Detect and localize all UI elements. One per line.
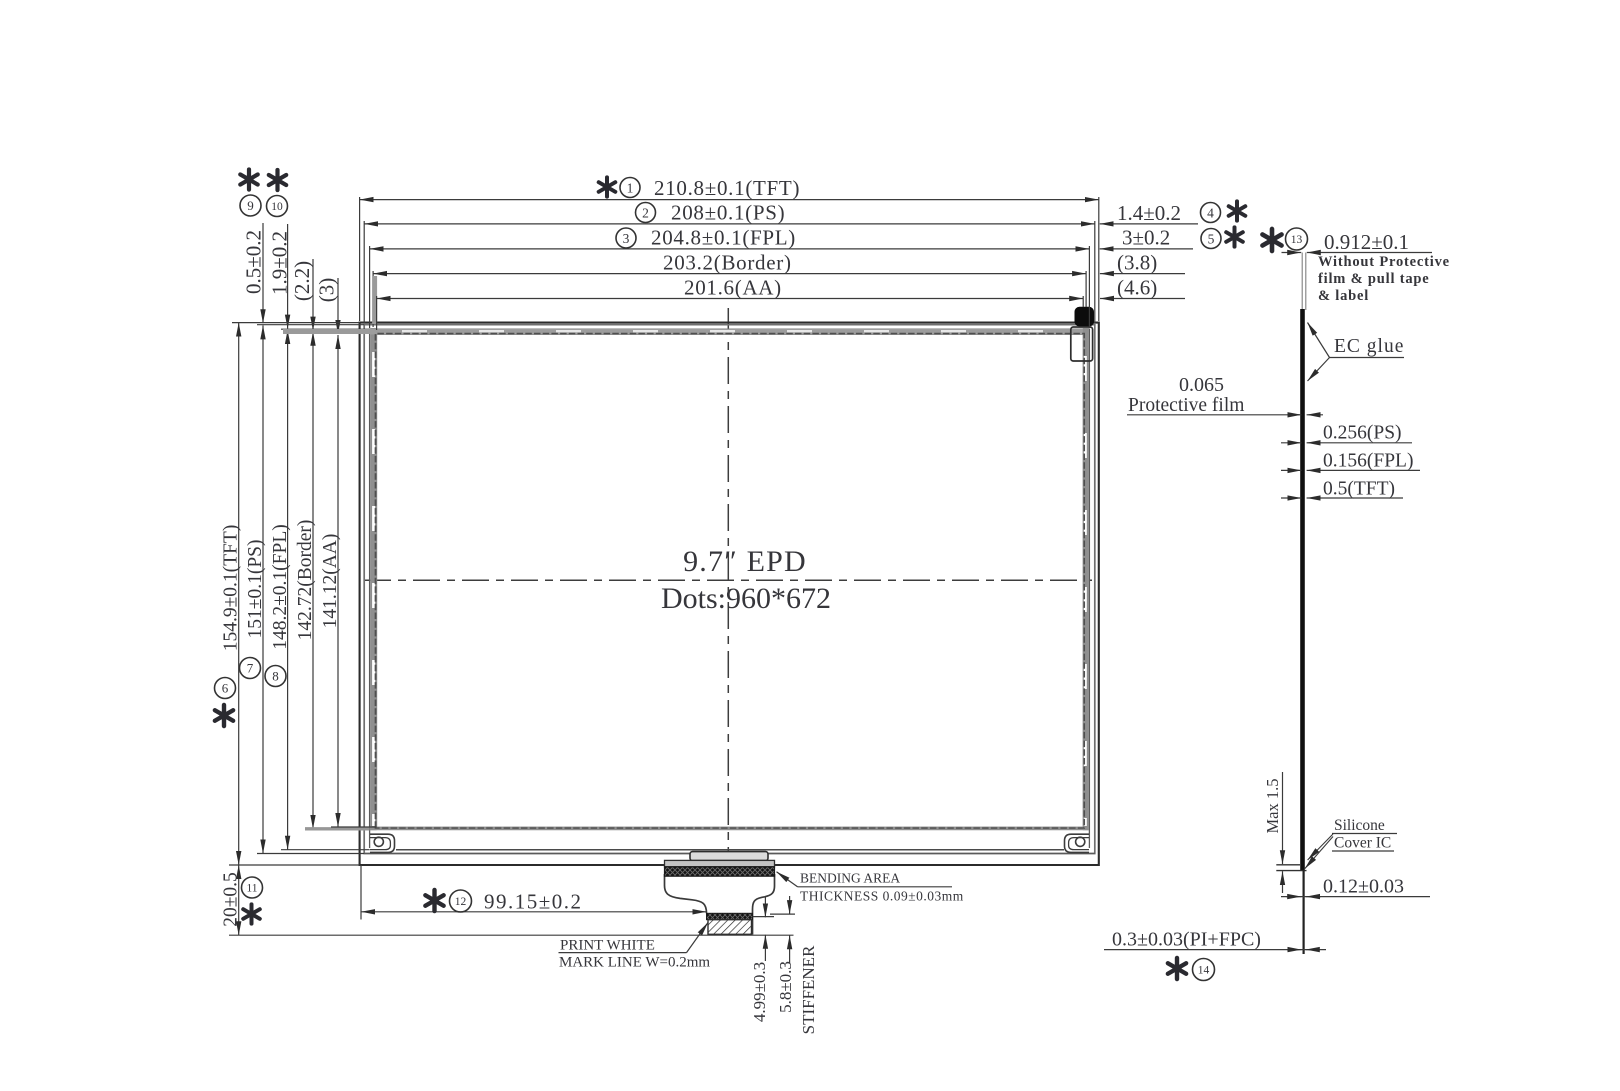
svg-text:(2.2): (2.2) xyxy=(290,261,314,301)
Max 1.5 lower arrow xyxy=(1282,871,1284,893)
asterisk for dim 6 xyxy=(215,705,233,726)
asterisk for dim 4 xyxy=(1229,201,1246,220)
underline PRINT WHITE xyxy=(559,952,687,954)
svg-text:99.15±0.2: 99.15±0.2 xyxy=(484,890,583,914)
dim 0.912 left arrow xyxy=(1282,252,1302,254)
0.256 arrows xyxy=(1281,442,1301,444)
svg-text:Without Protective: Without Protective xyxy=(1318,254,1450,270)
circled 2 xyxy=(636,203,656,223)
extension TFT top-left corner xyxy=(359,197,361,321)
FPC bending area dark crosshatch band xyxy=(665,867,775,876)
extension FPL bottom edge to left xyxy=(281,849,370,851)
svg-text:PRINT WHITE: PRINT WHITE xyxy=(560,938,655,954)
EC glue leader up xyxy=(1308,323,1330,358)
svg-text:(3.8): (3.8) xyxy=(1117,251,1157,275)
horizontal dashed centerline xyxy=(364,579,1094,581)
circled 3 xyxy=(616,228,636,248)
svg-text:203.2(Border): 203.2(Border) xyxy=(663,251,792,275)
circled 4 xyxy=(1201,203,1221,223)
extension PS bottom edge to left xyxy=(257,853,364,855)
circled 5 xyxy=(1201,229,1221,249)
svg-text:0.5(TFT): 0.5(TFT) xyxy=(1323,479,1395,500)
svg-text:151±0.1(PS): 151±0.1(PS) xyxy=(245,539,266,638)
svg-text:1.9±0.2: 1.9±0.2 xyxy=(268,231,292,295)
circled 9 xyxy=(240,195,261,216)
svg-text:1: 1 xyxy=(627,180,634,195)
protective film arrows xyxy=(1288,414,1301,416)
neck print-white dark crosshatch band xyxy=(707,913,753,919)
svg-text:148.2±0.1(FPL): 148.2±0.1(FPL) xyxy=(270,524,291,650)
Max 1.5 upper arrow xyxy=(1282,772,1284,864)
asterisk for dim 1 xyxy=(599,177,616,196)
svg-text:BENDING AREA: BENDING AREA xyxy=(800,871,900,886)
border band white dash texture xyxy=(372,352,375,826)
circled 7 xyxy=(240,658,261,679)
FPC connector tab (top) xyxy=(690,852,768,861)
extension Border top-left xyxy=(372,271,374,327)
svg-text:MARK LINE W=0.2mm: MARK LINE W=0.2mm xyxy=(559,955,710,971)
extension TFT bottom edge to left xyxy=(229,864,360,866)
extension neck top right short xyxy=(753,916,775,918)
svg-text:(3): (3) xyxy=(315,278,339,303)
svg-text:3±0.2: 3±0.2 xyxy=(1122,226,1170,250)
dim line 3: 204.8 FPL width xyxy=(370,248,1090,250)
left gap dim 1.9 upper leader xyxy=(287,224,289,329)
asterisk for dim 13 xyxy=(1262,229,1281,251)
left dim vertical: 148.2 FPL height xyxy=(287,330,289,850)
svg-text:142.72(Border): 142.72(Border) xyxy=(295,520,316,641)
svg-text:9: 9 xyxy=(247,198,254,213)
FPC body outline with S-curve neck xyxy=(665,874,775,935)
extension FPL top-right xyxy=(1088,246,1090,328)
svg-text:0.12±0.03: 0.12±0.03 xyxy=(1323,876,1404,898)
svg-text:20±0.5: 20±0.5 xyxy=(221,872,242,927)
svg-text:Protective film: Protective film xyxy=(1128,395,1244,416)
0.5 underline xyxy=(1318,497,1404,499)
extension TFT top-right corner xyxy=(1098,197,1100,321)
extension PS top-right xyxy=(1094,221,1096,323)
svg-text:7: 7 xyxy=(247,661,254,676)
svg-text:(4.6): (4.6) xyxy=(1117,276,1157,300)
dim 0.912 right arrow and underline xyxy=(1307,252,1432,254)
svg-text:0.912±0.1: 0.912±0.1 xyxy=(1324,230,1409,254)
svg-text:Dots:960*672: Dots:960*672 xyxy=(661,582,831,615)
left dim vertical: 141.12 AA height xyxy=(337,335,339,827)
svg-text:0.5±0.2: 0.5±0.2 xyxy=(242,230,266,294)
protective film underline xyxy=(1127,414,1299,416)
svg-text:210.8±0.1(TFT): 210.8±0.1(TFT) xyxy=(654,176,800,200)
bottom-left ear hole circle xyxy=(374,837,383,846)
circled 8 xyxy=(265,666,286,687)
left dim vertical: 151 PS height xyxy=(262,325,264,853)
svg-text:0.256(PS): 0.256(PS) xyxy=(1323,423,1402,444)
FPL outline rect xyxy=(370,329,1090,848)
svg-text:5.8±0.3: 5.8±0.3 xyxy=(776,961,795,1013)
svg-text:6: 6 xyxy=(222,681,229,696)
extension AA top-left xyxy=(376,296,378,330)
svg-text:1.4±0.2: 1.4±0.2 xyxy=(1117,201,1181,225)
silicone ledge lines xyxy=(1276,864,1300,866)
circled 11 xyxy=(242,877,263,898)
svg-text:4.99±0.3: 4.99±0.3 xyxy=(750,962,769,1022)
svg-text:204.8±0.1(FPL): 204.8±0.1(FPL) xyxy=(651,226,796,250)
extension FPL top edge to left xyxy=(281,328,370,330)
EC glue underline xyxy=(1330,357,1405,359)
Cover IC underline xyxy=(1332,850,1394,852)
svg-text:Max 1.5: Max 1.5 xyxy=(1263,779,1282,834)
dim line 2: 208 PS width xyxy=(364,223,1095,225)
leader to print white mark xyxy=(687,923,709,953)
svg-text:9.7″ EPD: 9.7″ EPD xyxy=(683,545,807,578)
extension border band top to left xyxy=(283,329,370,334)
extension AA bottom edge to left xyxy=(331,826,377,828)
svg-text:3: 3 xyxy=(623,231,630,246)
FPC tail line xyxy=(1302,870,1304,954)
extension Border bottom band to left xyxy=(305,827,370,830)
svg-text:13: 13 xyxy=(1291,234,1303,246)
dim line 5: 201.6 AA width xyxy=(377,298,1084,300)
svg-text:208±0.1(PS): 208±0.1(PS) xyxy=(671,201,785,225)
svg-text:THICKNESS 0.09±0.03mm: THICKNESS 0.09±0.03mm xyxy=(800,889,964,904)
left gap dim 3 upper leader xyxy=(337,278,339,334)
svg-text:8: 8 xyxy=(272,669,279,684)
bottom-right corner ear inner xyxy=(1069,838,1089,850)
asterisk for dim 5 xyxy=(1226,227,1243,246)
asterisk pair top-left 1 xyxy=(240,169,257,189)
top-right small rectangle outline xyxy=(1071,327,1093,361)
svg-text:141.12(AA): 141.12(AA) xyxy=(320,534,341,629)
section stack thin top lines xyxy=(1301,253,1303,311)
extension gray band top-left xyxy=(372,276,377,324)
right gap label line 3.8 xyxy=(1100,273,1185,275)
right gap label line 3 xyxy=(1100,248,1193,250)
svg-text:Cover IC: Cover IC xyxy=(1334,835,1391,852)
svg-text:film & pull tape: film & pull tape xyxy=(1318,271,1429,287)
dim 4.99 lower arrow xyxy=(764,935,766,961)
PS bottom edge xyxy=(364,853,1095,855)
0.5 arrows xyxy=(1281,497,1301,499)
extension FPL top-left xyxy=(369,246,371,328)
svg-text:10: 10 xyxy=(271,201,283,213)
circled 12 xyxy=(450,890,472,912)
0.3 arrows xyxy=(1287,949,1301,951)
dim line 1: 210.8 TFT width xyxy=(360,199,1099,201)
left dim vertical: 142.72 Border height xyxy=(312,332,314,829)
svg-text:EC glue: EC glue xyxy=(1334,336,1404,357)
bottom-right corner ear outer xyxy=(1065,834,1090,852)
asterisk for dim 12 xyxy=(425,890,443,911)
FPC bending rectangle upper gray part xyxy=(665,860,775,866)
left dim vertical: 154.9 TFT height xyxy=(238,323,240,865)
svg-text:12: 12 xyxy=(455,896,467,908)
bottom-right ear hole circle xyxy=(1076,837,1085,846)
svg-text:14: 14 xyxy=(1198,965,1210,977)
dim 5.8 lower arrow xyxy=(789,935,791,963)
circled 6 xyxy=(215,678,236,699)
svg-text:4: 4 xyxy=(1207,205,1214,220)
extension Border top-right xyxy=(1085,271,1087,307)
circled 13 xyxy=(1286,228,1308,250)
Silicone underline xyxy=(1332,833,1397,835)
0.156 arrows xyxy=(1281,469,1301,471)
dim 20 vertical at bottom-left xyxy=(238,865,240,935)
extension bend top right short xyxy=(770,913,795,915)
extension PS top-left xyxy=(363,221,365,323)
AA inner dashed edge xyxy=(376,334,1085,828)
stiffener diagonal hatch block xyxy=(708,920,752,935)
right gap label line 1.4 xyxy=(1100,223,1198,225)
dim 99.15 horizontal xyxy=(361,911,707,913)
dim 0.12 line xyxy=(1281,896,1430,898)
dim line 4: 203.2 Border width xyxy=(373,273,1086,275)
extension TFT top edge to left xyxy=(232,322,360,324)
extension TFT left edge down for 99.15 xyxy=(360,865,362,920)
circled 10 xyxy=(267,196,288,217)
EC glue leader down xyxy=(1308,358,1330,382)
dim 5.8 upper arrow xyxy=(789,896,791,914)
asterisk pair top-left 2 xyxy=(269,170,286,190)
underline BENDING AREA xyxy=(798,886,953,888)
stiffener bottom level line xyxy=(229,934,794,936)
top-right black corner mark xyxy=(1075,307,1095,327)
0.256 underline xyxy=(1318,442,1413,444)
circled 1 xyxy=(620,178,640,198)
silicone leader 1 xyxy=(1308,834,1333,860)
0.12 arrows xyxy=(1286,896,1301,898)
bottom-left corner ear outer xyxy=(370,834,395,852)
extension PS top edge to left xyxy=(257,324,364,326)
0.156 underline xyxy=(1318,469,1421,471)
dim 0.3 line xyxy=(1104,949,1326,951)
FPL bottom edge xyxy=(396,849,1064,851)
svg-text:0.065: 0.065 xyxy=(1179,374,1224,396)
bottom-left corner ear inner xyxy=(370,838,390,850)
left gap dim 2.2 upper leader xyxy=(312,259,314,331)
left gap dim 0.5 upper leader xyxy=(262,223,264,323)
dim 4.99 upper arrow xyxy=(764,897,766,917)
asterisk for dim 11 xyxy=(243,904,260,923)
PS outline rect xyxy=(364,325,1095,854)
circled 14 xyxy=(1193,959,1215,981)
asterisk for dim 14 xyxy=(1168,958,1186,979)
svg-text:154.9±0.1(TFT): 154.9±0.1(TFT) xyxy=(221,525,242,652)
leader to bending area xyxy=(777,872,798,887)
svg-text:0.3±0.03(PI+FPC): 0.3±0.03(PI+FPC) xyxy=(1112,929,1261,951)
vertical dashed centerline xyxy=(727,308,729,851)
silicone leader 2 xyxy=(1305,837,1333,869)
section stack thick body line xyxy=(1300,309,1305,870)
svg-text:201.6(AA): 201.6(AA) xyxy=(684,276,782,300)
svg-text:11: 11 xyxy=(246,883,257,895)
extension AA top-right xyxy=(1082,296,1084,307)
right gap label line 4.6 xyxy=(1100,298,1185,300)
svg-text:5: 5 xyxy=(1208,231,1215,246)
svg-text:& label: & label xyxy=(1318,288,1369,304)
svg-text:STIFFENER: STIFFENER xyxy=(799,945,818,1034)
svg-text:Silicone: Silicone xyxy=(1334,817,1385,834)
TFT outline rect xyxy=(360,323,1099,865)
svg-text:0.156(FPL): 0.156(FPL) xyxy=(1323,451,1413,472)
svg-text:2: 2 xyxy=(642,205,649,220)
border band frame (left/top/right/bottom thick gray) xyxy=(370,328,376,830)
